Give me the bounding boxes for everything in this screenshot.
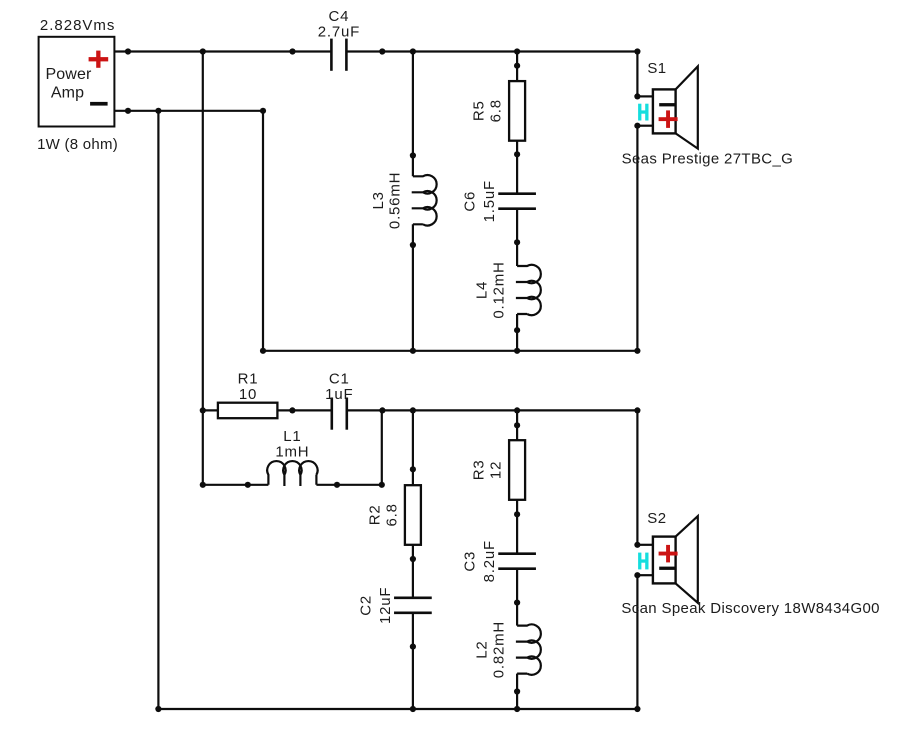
svg-text:C4: C4 — [329, 8, 350, 25]
svg-text:0.82mH: 0.82mH — [491, 621, 508, 678]
svg-text:Power: Power — [45, 66, 92, 83]
svg-text:12: 12 — [488, 461, 505, 479]
svg-text:Scan Speak Discovery 18W8434G0: Scan Speak Discovery 18W8434G00 — [621, 600, 879, 617]
svg-text:8.2uF: 8.2uF — [481, 540, 498, 582]
svg-text:C6: C6 — [462, 191, 479, 212]
svg-text:R2: R2 — [366, 505, 383, 526]
svg-text:1mH: 1mH — [275, 444, 309, 461]
svg-text:L3: L3 — [370, 191, 387, 209]
svg-text:2.828Vms: 2.828Vms — [40, 17, 116, 34]
svg-text:6.8: 6.8 — [488, 99, 505, 122]
svg-text:R1: R1 — [238, 370, 259, 387]
svg-text:C3: C3 — [462, 551, 479, 572]
svg-text:C1: C1 — [329, 370, 350, 387]
svg-text:R3: R3 — [471, 460, 488, 481]
svg-text:L4: L4 — [474, 281, 491, 299]
svg-text:10: 10 — [239, 386, 257, 403]
svg-text:S2: S2 — [647, 510, 666, 527]
svg-text:0.56mH: 0.56mH — [387, 172, 404, 229]
svg-text:Amp: Amp — [51, 85, 84, 102]
svg-text:1W (8 ohm): 1W (8 ohm) — [37, 136, 118, 153]
svg-text:0.12mH: 0.12mH — [491, 261, 508, 318]
svg-text:R5: R5 — [471, 100, 488, 121]
svg-text:L1: L1 — [283, 428, 301, 445]
svg-text:S1: S1 — [647, 60, 666, 77]
svg-text:1.5uF: 1.5uF — [481, 180, 498, 222]
svg-text:1uF: 1uF — [325, 386, 353, 403]
svg-text:Seas Prestige 27TBC_G: Seas Prestige 27TBC_G — [622, 150, 794, 167]
svg-text:6.8: 6.8 — [383, 503, 400, 526]
svg-text:12uF: 12uF — [377, 587, 394, 624]
svg-text:2.7uF: 2.7uF — [318, 23, 360, 40]
svg-text:C2: C2 — [357, 595, 374, 616]
svg-text:L2: L2 — [474, 640, 491, 658]
